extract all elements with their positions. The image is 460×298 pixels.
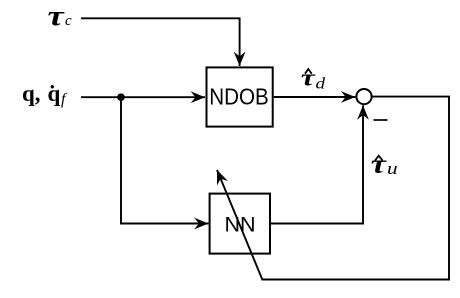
svg-text:q: q — [48, 81, 61, 106]
svg-text:u: u — [387, 160, 398, 179]
svg-text:d: d — [316, 74, 326, 92]
svg-text:c: c — [65, 13, 72, 29]
svg-text:NN: NN — [224, 213, 255, 237]
svg-text:τ: τ — [371, 149, 388, 178]
svg-text:τ: τ — [48, 1, 66, 32]
svg-text:τ: τ — [301, 65, 317, 92]
svg-text:NDOB: NDOB — [209, 84, 269, 110]
svg-text:q,: q, — [22, 81, 41, 106]
